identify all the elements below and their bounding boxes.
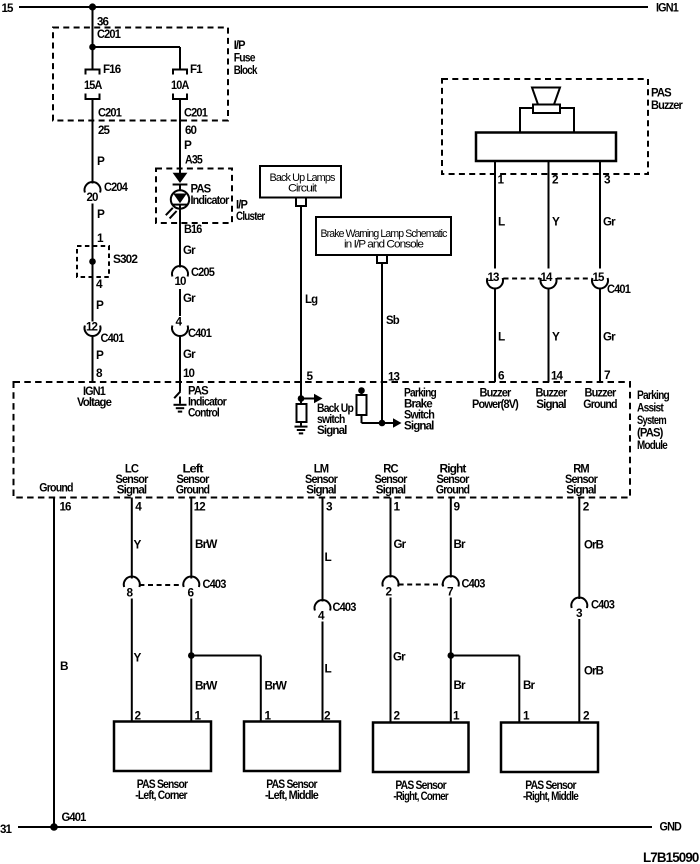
svg-text:Sb: Sb — [386, 313, 399, 327]
svg-text:31: 31 — [0, 822, 12, 836]
svg-text:S302: S302 — [113, 252, 138, 266]
svg-text:Block: Block — [234, 63, 258, 77]
svg-text:10: 10 — [175, 274, 187, 288]
svg-text:14: 14 — [551, 369, 563, 383]
svg-text:Br: Br — [454, 537, 466, 551]
svg-text:Cluster: Cluster — [236, 209, 266, 223]
svg-text:Gr: Gr — [183, 243, 196, 257]
svg-text:Gr: Gr — [183, 347, 196, 361]
svg-text:60: 60 — [185, 123, 197, 137]
svg-text:Y: Y — [134, 651, 142, 665]
svg-text:OrB: OrB — [584, 538, 603, 552]
svg-text:P: P — [97, 207, 105, 221]
svg-text:Gr: Gr — [393, 650, 406, 664]
svg-text:Gr: Gr — [603, 330, 616, 344]
svg-text:BrW: BrW — [195, 679, 218, 693]
svg-text:Ground: Ground — [436, 483, 470, 497]
svg-text:Voltage: Voltage — [77, 395, 112, 409]
svg-text:Power(8V): Power(8V) — [472, 397, 519, 411]
svg-text:Y: Y — [134, 538, 142, 552]
svg-text:C403: C403 — [333, 600, 357, 614]
svg-text:P: P — [96, 298, 104, 312]
svg-text:15: 15 — [593, 270, 605, 284]
svg-text:C403: C403 — [462, 577, 486, 591]
svg-text:L: L — [498, 215, 505, 229]
svg-text:12: 12 — [194, 500, 206, 514]
svg-text:-Right, Middle: -Right, Middle — [523, 789, 579, 803]
svg-text:Indicator: Indicator — [191, 193, 230, 207]
svg-text:10A: 10A — [171, 78, 190, 92]
svg-text:13: 13 — [488, 270, 500, 284]
svg-text:16: 16 — [60, 500, 72, 514]
svg-text:-Right, Corner: -Right, Corner — [393, 789, 449, 803]
svg-text:-Left, Corner: -Left, Corner — [135, 788, 188, 802]
svg-text:L: L — [498, 330, 505, 344]
svg-text:in I/P and Console: in I/P and Console — [344, 239, 424, 251]
svg-text:L: L — [325, 550, 332, 564]
svg-text:IGN1: IGN1 — [656, 1, 679, 15]
svg-text:Br: Br — [523, 678, 535, 692]
svg-text:Control: Control — [188, 406, 220, 420]
svg-text:12: 12 — [86, 320, 98, 334]
svg-text:BrW: BrW — [195, 537, 218, 551]
svg-text:Y: Y — [552, 215, 560, 229]
svg-text:C201: C201 — [98, 106, 122, 120]
svg-text:Lg: Lg — [305, 292, 318, 306]
svg-text:L7B15090: L7B15090 — [643, 849, 700, 864]
svg-text:C403: C403 — [203, 577, 227, 591]
svg-text:10: 10 — [183, 366, 195, 380]
svg-text:-Left, Middle: -Left, Middle — [265, 788, 319, 802]
svg-text:G401: G401 — [62, 810, 87, 824]
svg-text:Signal: Signal — [376, 483, 406, 497]
svg-text:B16: B16 — [184, 222, 203, 236]
svg-text:14: 14 — [541, 270, 553, 284]
svg-text:Signal: Signal — [117, 483, 147, 497]
svg-text:25: 25 — [98, 123, 110, 137]
svg-text:Buzzer: Buzzer — [651, 98, 683, 112]
svg-text:C401: C401 — [101, 331, 125, 345]
svg-text:Ground: Ground — [39, 481, 73, 495]
svg-text:13: 13 — [388, 370, 400, 384]
svg-text:Signal: Signal — [306, 483, 336, 497]
svg-text:C201: C201 — [184, 106, 208, 120]
svg-text:Gr: Gr — [603, 215, 616, 229]
svg-text:Signal: Signal — [404, 419, 434, 433]
svg-text:Gr: Gr — [394, 537, 407, 551]
svg-text:C205: C205 — [191, 265, 215, 279]
svg-text:P: P — [97, 154, 105, 168]
svg-text:B: B — [60, 659, 68, 673]
svg-text:C201: C201 — [97, 27, 121, 41]
svg-text:Signal: Signal — [536, 397, 566, 411]
svg-text:15: 15 — [2, 1, 14, 15]
svg-text:BrW: BrW — [265, 679, 288, 693]
svg-text:P: P — [184, 138, 192, 152]
svg-text:Ground: Ground — [583, 397, 617, 411]
svg-text:GND: GND — [660, 820, 683, 834]
svg-text:Ground: Ground — [176, 483, 210, 497]
svg-text:Module: Module — [637, 438, 668, 452]
svg-text:F1: F1 — [190, 62, 203, 76]
svg-text:F16: F16 — [103, 62, 122, 76]
svg-text:Signal: Signal — [566, 483, 596, 497]
svg-text:Circuit: Circuit — [288, 183, 317, 195]
svg-text:C403: C403 — [591, 598, 615, 612]
svg-text:C204: C204 — [104, 180, 128, 194]
svg-text:15A: 15A — [84, 78, 103, 92]
svg-text:P: P — [96, 348, 104, 362]
svg-text:20: 20 — [87, 190, 99, 204]
svg-text:Signal: Signal — [317, 423, 347, 437]
svg-text:C401: C401 — [607, 282, 631, 296]
svg-text:OrB: OrB — [584, 664, 603, 678]
svg-text:Gr: Gr — [183, 291, 196, 305]
svg-text:C401: C401 — [188, 326, 212, 340]
svg-text:Br: Br — [454, 678, 466, 692]
svg-text:A35: A35 — [185, 153, 203, 167]
svg-text:L: L — [325, 662, 332, 676]
svg-text:Y: Y — [552, 330, 560, 344]
